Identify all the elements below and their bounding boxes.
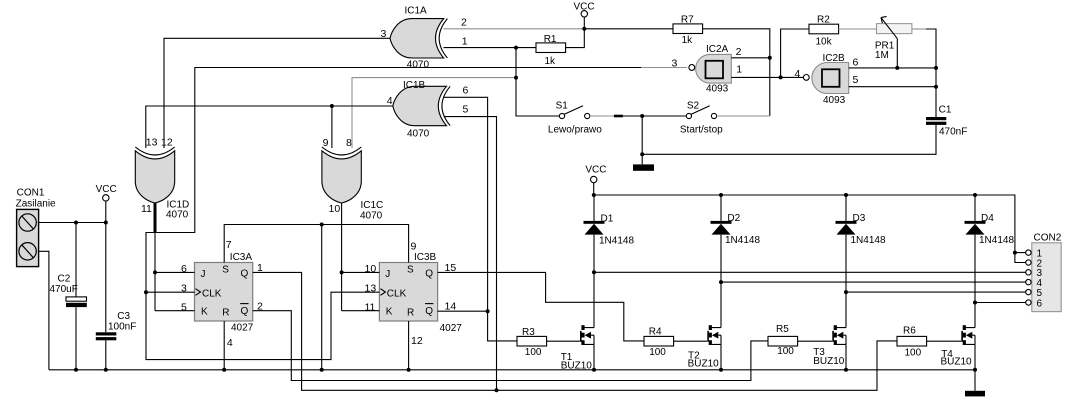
node bus / T1 source bbox=[592, 368, 596, 372]
wire IC2A input pin2 stub bbox=[731, 57, 770, 59]
XOR gate IC1D (4070) pointing down bbox=[135, 137, 189, 221]
svg-text:470nF: 470nF bbox=[939, 126, 967, 137]
wire set pins net: IC3A S pin7 to IC3B S pin9 with drop to ground bus bbox=[224, 225, 408, 370]
svg-text:4: 4 bbox=[387, 95, 393, 107]
svg-text:470uF: 470uF bbox=[50, 284, 78, 295]
svg-text:4070: 4070 bbox=[407, 60, 430, 71]
svg-text:5: 5 bbox=[1037, 288, 1043, 299]
svg-text:IC3A: IC3A bbox=[230, 252, 253, 263]
svg-text:BUZ10: BUZ10 bbox=[813, 356, 845, 367]
wire CON1 pin2 to ground bus bbox=[39, 251, 49, 369]
node bus / C3 bbox=[104, 368, 108, 372]
capacitor C1 470nF bbox=[926, 105, 967, 138]
svg-text:R7: R7 bbox=[681, 14, 694, 25]
wire D2 vertical and T2 drain rail to CON2 pin4 bbox=[721, 195, 1026, 328]
JK flip-flop IC3B (4027) bbox=[365, 241, 463, 348]
svg-text:7: 7 bbox=[226, 239, 232, 251]
node junction dots bbox=[74, 27, 1017, 393]
wire C3 leads bbox=[105, 223, 107, 370]
svg-text:2: 2 bbox=[461, 17, 467, 29]
wire S1 right to S2 left with junction to ground bbox=[590, 115, 614, 117]
svg-text:10: 10 bbox=[329, 203, 341, 215]
resistor R2 10k bbox=[809, 14, 839, 47]
svg-text:1M: 1M bbox=[875, 50, 889, 61]
wire IC2B input pin5 stub to C1 bbox=[849, 86, 936, 88]
svg-text:S1: S1 bbox=[556, 101, 569, 112]
svg-text:J: J bbox=[201, 269, 206, 280]
wire IC3A R pin4 to ground bus bbox=[223, 321, 225, 370]
node IC1C pin8 branch bbox=[514, 76, 518, 80]
wire D4 vertical and T4 drain rail to CON2 pin6 bbox=[975, 195, 1026, 328]
svg-text:BUZ10: BUZ10 bbox=[688, 358, 720, 369]
wire VCC top rail to R7 left bbox=[584, 28, 673, 30]
svg-text:Q: Q bbox=[241, 306, 249, 317]
wire IC2B input pin6 stub to PR1 wiper and C1 bbox=[849, 67, 936, 69]
wire T4 source to ground bus bbox=[974, 344, 976, 369]
wire D1 vertical and T1 drain rail to CON2 pin3 bbox=[594, 195, 1026, 328]
node D4 / T4 drain rail bbox=[973, 301, 977, 305]
wire CON2 pin2 link bbox=[1015, 253, 1026, 263]
node CON1 / C2 bbox=[74, 221, 78, 225]
resistor R4 100 bbox=[644, 327, 674, 358]
wire C2 leads bbox=[75, 223, 77, 370]
svg-text:S: S bbox=[407, 265, 414, 276]
svg-text:6: 6 bbox=[463, 84, 469, 96]
wire branch to IC1C input pin9 bbox=[331, 106, 333, 148]
wire R1 node down to switch S1 left bbox=[516, 48, 559, 116]
node VCC top rail bbox=[582, 27, 586, 31]
wire VCC diode rail bbox=[594, 195, 1026, 253]
svg-text:4027: 4027 bbox=[440, 323, 463, 334]
XOR gate IC1C (4070) pointing down bbox=[322, 137, 383, 222]
node R2 / IC2B out bbox=[779, 75, 783, 79]
svg-text:IC2B: IC2B bbox=[823, 53, 846, 64]
node VCC rail / D4 bbox=[973, 193, 977, 197]
svg-text:1N4148: 1N4148 bbox=[599, 236, 634, 247]
svg-text:CON1: CON1 bbox=[17, 188, 45, 199]
wire PR1 right to C1 top corner bbox=[912, 28, 926, 30]
wire IC3B Q-bar pin14 stub bbox=[438, 310, 488, 312]
resistor R1 1k bbox=[536, 34, 566, 67]
svg-text:9: 9 bbox=[411, 241, 417, 253]
svg-text:R6: R6 bbox=[903, 325, 916, 336]
svg-text:2: 2 bbox=[736, 46, 742, 58]
node L4 / IC1B pin5 bbox=[495, 388, 499, 392]
wire IC3A CLK stub bbox=[146, 291, 195, 293]
node C1 / pin6 bbox=[934, 66, 938, 70]
node CLK / IC3A CLK bbox=[144, 290, 148, 294]
svg-text:1k: 1k bbox=[545, 56, 557, 67]
svg-text:Zasilanie: Zasilanie bbox=[16, 199, 56, 210]
wire R2 left vertical bbox=[781, 29, 809, 77]
svg-text:4: 4 bbox=[795, 68, 801, 80]
svg-text:R: R bbox=[407, 307, 414, 318]
node R1 left / S1 bbox=[514, 46, 518, 50]
svg-text:6: 6 bbox=[853, 56, 859, 68]
svg-text:100: 100 bbox=[777, 346, 794, 357]
svg-text:9: 9 bbox=[323, 137, 329, 149]
svg-text:IC2A: IC2A bbox=[706, 44, 729, 55]
wire clock net: IC2A output to IC3A CLK and IC3B CLK bbox=[641, 67, 687, 69]
svg-text:IC1C: IC1C bbox=[361, 200, 384, 211]
svg-text:4070: 4070 bbox=[166, 209, 189, 220]
svg-text:J: J bbox=[385, 269, 390, 280]
svg-text:K: K bbox=[386, 307, 393, 318]
node D3 / T3 drain rail bbox=[844, 290, 848, 294]
XOR gate IC1A (4070) pointing left bbox=[381, 6, 468, 71]
wire IC3A Q-bar pin2 line L3 to R5 and T3 gate bbox=[253, 311, 768, 381]
switch S2 Start/stop bbox=[680, 101, 723, 136]
diode D4 1N4148 bbox=[965, 213, 1015, 246]
node D2 / T2 drain rail bbox=[719, 280, 723, 284]
svg-text:R3: R3 bbox=[522, 327, 535, 338]
svg-text:10k: 10k bbox=[816, 36, 833, 47]
wire R6 right to T4 gate bbox=[927, 340, 962, 342]
svg-text:Q: Q bbox=[241, 268, 249, 279]
node bus / C2 bbox=[74, 368, 78, 372]
svg-text:Q: Q bbox=[425, 268, 433, 279]
capacitor C3 100nF bbox=[96, 311, 137, 340]
ground symbol (bottom right, under T4 source) bbox=[965, 370, 985, 397]
svg-text:R1: R1 bbox=[544, 34, 557, 45]
wire IC1A input pin1 to R1 left bbox=[444, 47, 537, 49]
svg-text:6: 6 bbox=[1037, 298, 1043, 309]
wire T1 source to ground bus bbox=[593, 344, 595, 369]
svg-text:D1: D1 bbox=[601, 214, 614, 225]
svg-text:CON2: CON2 bbox=[1034, 233, 1062, 244]
svg-text:1: 1 bbox=[736, 63, 742, 75]
transistor T4 BUZ10 (N-MOSFET) bbox=[941, 325, 976, 367]
svg-text:Start/stop: Start/stop bbox=[680, 125, 723, 136]
transistor T2 BUZ10 (N-MOSFET) bbox=[688, 325, 721, 369]
svg-text:4070: 4070 bbox=[407, 128, 430, 139]
wire IC2A input pin1 to IC2B output pin4 bbox=[731, 76, 803, 78]
resistor R7 1k bbox=[673, 14, 703, 46]
node VCC rail / D3 bbox=[844, 193, 848, 197]
wire R3 right to T1 gate bbox=[547, 340, 580, 342]
svg-text:D3: D3 bbox=[853, 213, 866, 224]
svg-text:12: 12 bbox=[161, 137, 173, 149]
node VCC rail / D2 bbox=[719, 193, 723, 197]
svg-text:K: K bbox=[201, 307, 208, 318]
svg-text:R5: R5 bbox=[776, 324, 789, 335]
node bus / T2 source bbox=[719, 368, 723, 372]
svg-text:13: 13 bbox=[146, 137, 158, 149]
wire IC1C output pin10 to IC3B J/K bbox=[342, 203, 380, 311]
svg-text:1: 1 bbox=[462, 36, 468, 48]
capacitor C2 470uF (electrolytic) bbox=[50, 274, 87, 308]
svg-text:11: 11 bbox=[365, 301, 376, 313]
svg-text:IC1A: IC1A bbox=[405, 6, 428, 17]
svg-text:8: 8 bbox=[346, 137, 352, 149]
wire IC1A output pin3 to IC1D input pin12 bbox=[164, 38, 390, 148]
wire IC3A Q pin1 line L4 to R6 and T4 gate bbox=[253, 272, 897, 390]
svg-text:D4: D4 bbox=[981, 213, 994, 224]
wire IC1D output pin11 (thick) to IC3A J/K bbox=[154, 203, 157, 233]
svg-text:10: 10 bbox=[365, 263, 377, 275]
connector CON1 Zasilanie (2-pin terminal) bbox=[16, 188, 56, 267]
node IC1B out / IC1C pin9 bbox=[330, 104, 334, 108]
svg-text:100: 100 bbox=[649, 347, 666, 358]
transistor T1 BUZ10 (N-MOSFET) bbox=[561, 325, 594, 372]
wire C1 bottom to ground node bbox=[642, 125, 936, 154]
resistor R3 100 bbox=[517, 327, 547, 358]
node S1-S2 ground tap bbox=[640, 114, 644, 118]
node bus / IC3A R bbox=[222, 368, 226, 372]
switch S1 Lewo/prawo bbox=[548, 101, 602, 136]
wire R2 right to PR1 left (grey) bbox=[839, 28, 877, 30]
wire R1 right up to VCC rail bbox=[566, 29, 585, 48]
svg-text:1N4148: 1N4148 bbox=[725, 235, 760, 246]
svg-text:4093: 4093 bbox=[823, 95, 846, 106]
connector CON2 (6-pin) bbox=[1026, 233, 1062, 312]
wire IC1B output pin4 to IC1D input pin13 bbox=[146, 106, 393, 148]
svg-text:12: 12 bbox=[411, 335, 423, 347]
svg-text:6: 6 bbox=[181, 263, 187, 275]
wire branch to IC1C input pin8 bbox=[352, 78, 516, 148]
wire IC1A input pin2 to VCC rail (grey part) bbox=[444, 28, 585, 30]
node bus / T3 source bbox=[844, 368, 848, 372]
svg-text:R2: R2 bbox=[817, 14, 830, 25]
svg-text:Q: Q bbox=[425, 306, 433, 317]
resistor R5 100 bbox=[768, 324, 798, 357]
node VCC rail / D1 bbox=[592, 193, 596, 197]
power VCC symbol (top, over IC1A pin2 rail) bbox=[574, 2, 595, 29]
svg-text:VCC: VCC bbox=[585, 165, 606, 176]
wire R7 right down to IC2A pin2 and S2 right bbox=[703, 29, 770, 116]
node bus / IC3B R bbox=[407, 368, 411, 372]
svg-text:C1: C1 bbox=[939, 105, 952, 116]
wire IC1B input pin5 to IC3A Q line L4 bbox=[444, 117, 497, 391]
svg-text:R: R bbox=[222, 307, 229, 318]
svg-text:S2: S2 bbox=[687, 101, 700, 112]
node CON2 pin1/pin2 tie bbox=[1013, 251, 1017, 255]
power VCC symbol (middle, diode rail) bbox=[585, 165, 606, 196]
svg-text:4093: 4093 bbox=[706, 84, 729, 95]
svg-text:100: 100 bbox=[905, 347, 922, 358]
svg-text:1N4148: 1N4148 bbox=[979, 235, 1014, 246]
wire D3 vertical and T3 drain rail to CON2 pin5 bbox=[846, 195, 1026, 328]
svg-text:5: 5 bbox=[463, 103, 469, 115]
svg-text:5: 5 bbox=[853, 74, 859, 86]
node bus / T4 source / ground bbox=[973, 368, 977, 372]
svg-text:1k: 1k bbox=[682, 35, 694, 46]
svg-text:1N4148: 1N4148 bbox=[851, 235, 886, 246]
transistor T3 BUZ10 (N-MOSFET) bbox=[813, 325, 846, 367]
node R7 / IC2A pin2 bbox=[768, 56, 772, 60]
svg-text:CLK: CLK bbox=[202, 289, 222, 300]
svg-text:VCC: VCC bbox=[96, 184, 117, 195]
svg-text:4: 4 bbox=[227, 337, 233, 349]
wire IC3B R pin12 to ground bus bbox=[408, 321, 410, 370]
potentiometer PR1 1M bbox=[875, 16, 912, 68]
svg-text:CLK: CLK bbox=[387, 289, 407, 300]
wire IC3B Q pin15 to R4 and T2 gate bbox=[438, 272, 644, 341]
wire T2 source to ground bus bbox=[720, 344, 722, 369]
svg-text:100: 100 bbox=[525, 347, 542, 358]
svg-text:IC1B: IC1B bbox=[403, 80, 426, 91]
resistor R6 100 bbox=[897, 325, 927, 358]
wire IC1B input pin6 to IC3B Q-bar net and down to R3 bbox=[444, 97, 517, 341]
node D1 / T1 drain rail bbox=[592, 270, 596, 274]
power VCC symbol (left, near CON1) bbox=[96, 184, 117, 223]
node IC1D out / IC3A J bbox=[153, 270, 157, 274]
ground symbol (under S1/S2 junction) bbox=[633, 154, 654, 170]
wire R5 right to T3 gate bbox=[798, 340, 833, 342]
wire S2 right to R7 vertical (grey) bbox=[717, 115, 770, 117]
svg-text:R4: R4 bbox=[649, 327, 662, 338]
wire T3 source to ground bus bbox=[845, 344, 847, 369]
node C1 / pin5 bbox=[934, 85, 938, 89]
node PR1 wiper / pin6 bbox=[895, 66, 899, 70]
svg-text:11: 11 bbox=[141, 203, 152, 215]
node S-net drop bbox=[320, 223, 324, 227]
node IC3B pin14 / IC1B pin6 bbox=[486, 309, 490, 313]
svg-text:Lewo/prawo: Lewo/prawo bbox=[548, 125, 602, 136]
svg-text:VCC: VCC bbox=[574, 2, 595, 13]
wire CON1 pin1 to VCC node and C3 bbox=[39, 222, 106, 224]
NAND gate IC2A (4093) pointing left, with Schmitt square bbox=[672, 44, 743, 95]
wire R4 right to T2 gate bbox=[674, 340, 708, 342]
diode D1 1N4148 bbox=[584, 214, 635, 247]
svg-text:IC3B: IC3B bbox=[414, 252, 437, 263]
node VCC left / C3 bbox=[104, 221, 108, 225]
wire ground bus bbox=[49, 369, 975, 371]
svg-text:S: S bbox=[222, 265, 229, 276]
XOR gate IC1B (4070) pointing left bbox=[387, 80, 469, 139]
diode D2 1N4148 bbox=[711, 213, 761, 246]
JK flip-flop IC3A (4027) bbox=[181, 239, 263, 349]
svg-text:BUZ10: BUZ10 bbox=[941, 357, 973, 368]
diode D3 1N4148 bbox=[836, 213, 886, 246]
svg-text:4070: 4070 bbox=[360, 210, 383, 221]
svg-text:D2: D2 bbox=[727, 213, 740, 224]
node bus / S-net drop bbox=[320, 368, 324, 372]
svg-text:5: 5 bbox=[181, 301, 187, 313]
NAND gate IC2B (4093) pointing left, with Schmitt square bbox=[795, 53, 859, 106]
svg-text:4027: 4027 bbox=[231, 323, 254, 334]
node ground wire corner bbox=[640, 152, 644, 156]
node IC1C out / IC3B J bbox=[340, 270, 344, 274]
svg-text:100nF: 100nF bbox=[108, 321, 136, 332]
